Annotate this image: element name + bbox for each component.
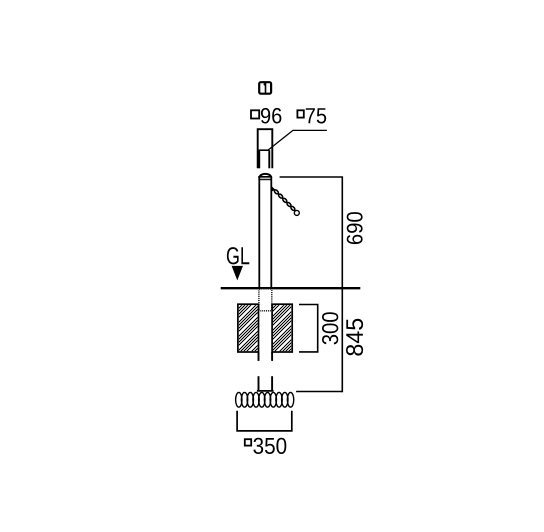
post left edge — [258, 177, 260, 287]
foundation left block (hatched) — [238, 304, 259, 352]
post left edge lower stub — [258, 376, 260, 390]
dimension line bottom horizontal — [296, 391, 342, 393]
dimension line vertical 690/845 — [341, 176, 343, 392]
GL marker triangle — [232, 266, 243, 281]
head detail: post right edge — [268, 150, 270, 168]
300 dimension bracket — [299, 305, 318, 352]
square symbol for 75 — [297, 110, 303, 117]
post right edge lower stub — [271, 376, 273, 390]
label 96 — [261, 108, 282, 124]
post cap dome — [260, 174, 271, 177]
dimension line top horizontal — [280, 176, 343, 178]
GL label — [227, 247, 249, 264]
post right edge below foundation — [271, 352, 273, 361]
plan-view icon of cap — [259, 82, 271, 95]
post left edge below foundation — [258, 352, 260, 361]
label 690 — [347, 212, 363, 244]
square symbol for 96 — [251, 110, 259, 118]
chain attachment lug — [271, 186, 275, 192]
buried sleeve (hidden, dashed) — [259, 289, 272, 311]
label 845 — [346, 319, 363, 356]
ground line — [221, 287, 361, 289]
chain end ring — [294, 210, 299, 215]
foundation right block (hatched) — [272, 304, 292, 352]
head detail: post left edge — [258, 150, 260, 168]
gravel coil — [236, 392, 294, 407]
chain links — [274, 189, 296, 211]
label 75 — [306, 108, 326, 123]
label 350 — [253, 438, 286, 454]
head detail: cap outline — [258, 129, 273, 168]
350 dimension bracket — [237, 411, 292, 431]
square symbol for 350 — [245, 439, 251, 445]
leader line from 75 to post — [268, 130, 327, 150]
post cap black band — [258, 176, 272, 178]
post cap grey band — [259, 178, 272, 179]
post bottom edge — [257, 390, 274, 392]
head detail: post top edge — [259, 149, 270, 151]
post right edge — [270, 177, 272, 287]
post cap lower line — [258, 179, 271, 180]
label 300 — [322, 312, 338, 344]
concrete hatching — [188, 303, 345, 354]
